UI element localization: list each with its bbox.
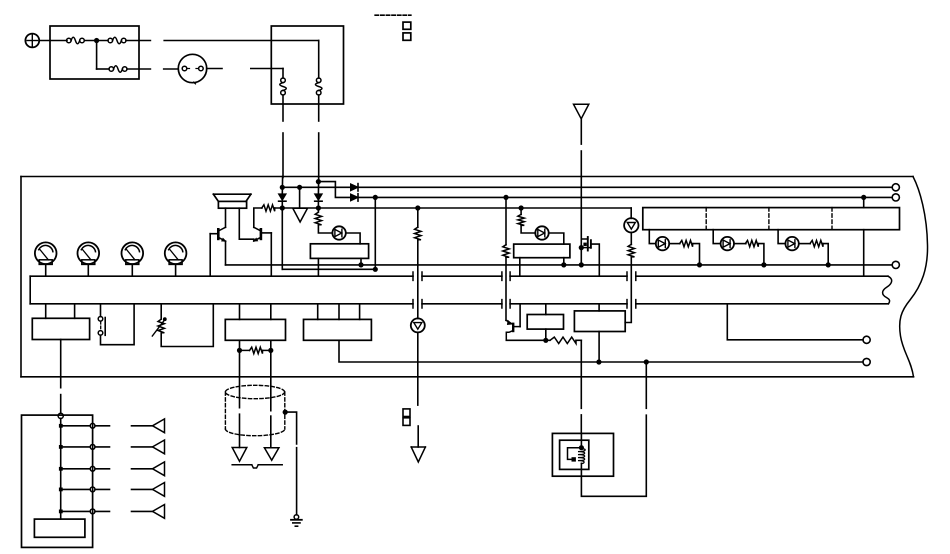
wire mast lead right: [270, 416, 272, 448]
speaker arrow 5: [153, 505, 165, 519]
junction L2 end: [373, 267, 378, 272]
wire branch 4 out: [95, 488, 110, 490]
wire lamp LP2 stem: [87, 264, 89, 276]
wire LED3 to resistor: [734, 243, 746, 245]
terminal J1-1: [90, 423, 95, 428]
wire U6 stem2: [338, 304, 340, 320]
wire branch 1 cont: [132, 425, 153, 427]
wire Q1 base: [210, 233, 218, 235]
connector P1: [178, 54, 206, 82]
wire antenna inside box: [580, 177, 582, 265]
junction J1 tap 5: [59, 510, 63, 514]
junction rail3 D4: [316, 205, 321, 210]
dimmer unit U2: [514, 244, 570, 258]
wire ground lead: [296, 448, 298, 515]
wire D3 to rail3: [281, 201, 283, 208]
wire rail3 corner down: [630, 208, 632, 218]
wire rail3: [254, 208, 262, 227]
wire mast to ground: [285, 412, 296, 444]
wire bus output drop: [727, 304, 863, 340]
wire LED4 feed: [778, 230, 785, 244]
junction U1 L1: [358, 262, 363, 267]
wire R10 drop: [823, 244, 828, 265]
wire branch 2 out: [95, 446, 110, 448]
wire to fuse F4: [251, 68, 283, 70]
wire J1 branch 4: [61, 488, 90, 490]
terminal rail1: [892, 184, 899, 191]
wire LED2 feed: [649, 230, 656, 244]
battery B1: [25, 34, 39, 48]
main unit box bottom edge: [21, 376, 914, 378]
lamp LP1: [35, 242, 57, 264]
indicator LP6: [624, 218, 638, 232]
wire U7 bottom stem: [545, 329, 547, 340]
wire x375 down: [374, 197, 376, 269]
junction rail2 x506: [503, 195, 508, 200]
fuse box FB1: [50, 26, 139, 79]
wire branch 2 cont: [132, 446, 153, 448]
wire x418 below break: [417, 426, 419, 447]
fuse box FB2: [271, 26, 343, 104]
wire rail2 hook: [318, 182, 350, 198]
terminal L1: [892, 261, 899, 268]
wire U1 stem right: [360, 258, 362, 265]
lighting unit U3: [643, 208, 900, 230]
lamp LP3: [122, 242, 144, 264]
wire F5 down: [318, 95, 320, 121]
resistor R12: [240, 349, 250, 351]
bus bar top edge: [30, 275, 413, 277]
wire F5 to main box: [318, 133, 320, 178]
wire rail2 right: [358, 196, 892, 198]
indicator LP5: [411, 318, 425, 332]
terminal J1-2: [90, 445, 95, 450]
dashed divider: [768, 208, 770, 230]
wire branch 3 out: [95, 468, 110, 470]
antenna ANT1: [574, 104, 589, 119]
wire J1 branch 3: [61, 468, 90, 470]
wire gate bend: [581, 238, 588, 240]
resistor R4: [503, 245, 509, 258]
unit U8: [574, 311, 625, 332]
fuse F4: [281, 78, 286, 83]
wire relay out: [581, 415, 646, 496]
wire lamp LP4 stem: [175, 264, 177, 276]
resistor R10: [810, 240, 823, 246]
wire U7 top stem: [545, 304, 547, 315]
lamp LED1: [535, 226, 548, 239]
lamp LED3: [721, 237, 734, 250]
junction Q4 source: [579, 245, 584, 250]
wire relay coil top: [580, 433, 582, 449]
wire VR stem: [160, 304, 162, 319]
wire rail1 right: [358, 186, 892, 188]
wire L2: [282, 268, 375, 270]
wire x418 upper: [417, 208, 419, 227]
relay K1 inner: [560, 440, 589, 469]
junction rail1 start: [280, 185, 285, 190]
wire rail1 left: [282, 186, 350, 188]
junction R12 left: [237, 348, 242, 353]
diode D4: [315, 194, 322, 200]
wire Q2 base drop: [270, 233, 272, 276]
wire lamp LP1 stem: [45, 264, 47, 276]
wire to F3: [97, 68, 109, 70]
main unit box torn right edge: [900, 177, 928, 377]
connector pad square: [403, 22, 411, 29]
lamp LED4: [785, 237, 798, 250]
junction emitter res: [543, 338, 548, 343]
wire x631 mid: [630, 232, 632, 244]
speaker arrow 1: [153, 419, 165, 433]
wire Q2 base: [261, 232, 271, 234]
junction U2 L1: [561, 262, 566, 267]
speaker arrow 4: [153, 483, 165, 497]
diode D1: [351, 184, 358, 191]
wire top feed to fusebox FB2: [164, 40, 319, 42]
junction J1 tap 2: [59, 445, 63, 449]
wire speaker right leg: [238, 208, 240, 239]
wire R9 drop: [758, 244, 764, 265]
wire R5 to relay drop: [576, 339, 581, 341]
resistor R9: [745, 240, 758, 246]
wire Q1 base drop: [209, 234, 211, 277]
wire F3 out: [127, 68, 150, 70]
speaker arrow 2: [153, 440, 165, 454]
lamp LP2: [78, 242, 100, 264]
wire mast lead left: [239, 414, 241, 447]
wire R2 to M1: [318, 226, 332, 234]
junction rail2 x375: [373, 195, 378, 200]
wire feed below break: [60, 395, 62, 414]
junction rail3 x521: [519, 205, 524, 210]
wire F2 out: [126, 40, 150, 42]
wire speaker left leg: [225, 208, 227, 227]
wire Q3 emitter: [506, 339, 546, 341]
speaker SP1: [213, 193, 251, 195]
wire U3 bottom stem: [863, 230, 865, 277]
connector pad square: [403, 409, 410, 417]
wire x521 upper: [520, 208, 522, 214]
dashed separator: [375, 14, 411, 16]
wire common line L1: [226, 264, 892, 266]
wire drop to F4: [282, 69, 284, 79]
bus bar bottom edge: [30, 303, 413, 305]
wire U8 bottom stem: [598, 332, 600, 363]
junction rail2 hook: [316, 179, 321, 184]
wire LED1 right: [549, 233, 564, 244]
wire S1 loop: [101, 304, 135, 345]
wire U4 stem2: [74, 304, 76, 319]
wire x506 to bus: [505, 257, 507, 320]
junction fuse node: [94, 38, 99, 43]
wire Q2 emitter: [253, 239, 255, 241]
junction arrow drop: [297, 185, 302, 190]
coil tap: [572, 457, 576, 461]
diode D2: [351, 194, 358, 201]
unit U7: [527, 315, 563, 330]
relay K1 outer: [552, 433, 613, 476]
amplifier unit U5: [225, 319, 285, 340]
junction J1 tap 3: [59, 467, 63, 471]
wire U4 bottom stem: [60, 340, 62, 388]
bus connector ticks: [626, 272, 628, 280]
junction L1 x763: [761, 262, 766, 267]
wire U4 stem1: [45, 304, 47, 319]
wire x318 resistor top: [317, 208, 319, 212]
wire U6 stem1: [317, 304, 319, 320]
junction box J1: [22, 415, 93, 547]
antenna motor mast (dashed cylinder): [225, 385, 284, 398]
wire U5 down right: [270, 340, 272, 410]
junction coil top: [579, 445, 584, 450]
wire U2 stem right: [563, 258, 565, 265]
wire R8 drop: [693, 244, 700, 265]
wire D4 to rail3: [317, 201, 319, 208]
wire F4 down: [282, 95, 284, 121]
wire relay feed 2: [580, 415, 582, 434]
main unit box top edge: [21, 176, 913, 178]
wire to connector P1: [164, 68, 179, 70]
terminal y340: [863, 336, 870, 343]
arrow mast right: [264, 448, 279, 461]
wire fuse F5 drop: [317, 177, 319, 195]
dashed divider: [831, 208, 833, 230]
transistor Q1: [217, 229, 220, 239]
wire R6 to LED: [521, 225, 535, 233]
diode D3: [279, 194, 286, 200]
connector pad square: [403, 418, 410, 426]
wire U5 down left: [239, 340, 241, 407]
wire J1 branch 5: [61, 510, 90, 512]
wire U8 top stem: [598, 304, 600, 311]
terminal J1-4: [90, 487, 95, 492]
unit U9: [34, 519, 85, 537]
wire battery to fusebox: [39, 40, 67, 42]
terminal rail2: [892, 194, 899, 201]
resistor R8: [680, 240, 693, 246]
wire branch 1 out: [95, 425, 110, 427]
wire LED4 to resistor: [799, 243, 810, 245]
wire x282 down: [281, 208, 283, 269]
wire x646 upper: [645, 362, 647, 408]
wire antenna lead: [580, 119, 582, 144]
resistor R3: [415, 227, 421, 240]
wire Q4 source: [581, 247, 591, 249]
fuse F3: [109, 67, 114, 72]
arrow mast left: [232, 448, 247, 462]
control unit U6: [304, 319, 372, 340]
terminal J1 feed: [58, 413, 63, 418]
junction rail3 x418: [415, 205, 420, 210]
junction J1 tap 1: [59, 424, 63, 428]
transistor Q4 mosfet: [587, 237, 589, 251]
resistor R5: [546, 339, 550, 341]
junction y362 x599: [596, 359, 601, 364]
variable resistor VR1: [158, 319, 164, 333]
wire M1 right: [346, 233, 360, 244]
junction antenna L1: [579, 262, 584, 267]
wire fuse F4 drop: [281, 177, 283, 195]
bus connector ticks: [412, 272, 414, 280]
wire antenna to box: [580, 151, 582, 178]
wire U2 stem left: [519, 258, 521, 277]
fuse F1: [67, 38, 72, 43]
wire x863 drop: [863, 197, 865, 207]
wire relay feed: [580, 340, 582, 408]
junction R12 right: [268, 348, 273, 353]
open arrow down A2: [411, 446, 425, 448]
wire U5 stem2: [270, 304, 272, 320]
wire J1 branch 1: [61, 425, 90, 427]
resistor R1: [262, 205, 275, 211]
junction J1 tap 4: [59, 488, 63, 492]
junction y362 x646: [644, 359, 649, 364]
junction mast ground: [283, 410, 288, 415]
ground G1: [294, 515, 299, 520]
bus bar left edge: [29, 276, 31, 304]
wire relay coil bottom: [580, 463, 582, 476]
motor M1: [332, 226, 345, 239]
wire VR1 loop: [161, 304, 213, 347]
wire coil bypass: [568, 448, 582, 460]
wire LED3 feed: [713, 230, 720, 244]
wire U1 stem left: [317, 258, 319, 276]
control unit U1: [310, 244, 368, 259]
wire drop to fuse F5: [318, 41, 320, 79]
relay coil: [578, 449, 585, 464]
wire U6 output: [339, 340, 863, 362]
wire branch 5 cont: [132, 510, 153, 512]
wire x506 upper: [505, 197, 507, 244]
bus connector ticks: [501, 272, 503, 280]
connector pad square: [403, 33, 411, 40]
mast base line: [232, 464, 252, 466]
wire Q1 emitter drop: [225, 241, 227, 265]
terminal y362: [863, 358, 870, 365]
wire x631 lower: [625, 257, 631, 323]
fuse F2: [108, 38, 113, 43]
wire P1 out: [207, 68, 222, 70]
feed unit U4: [32, 318, 89, 339]
resistor R7: [628, 244, 634, 257]
wire J1 bus: [60, 419, 62, 520]
junction L1 x828: [826, 262, 831, 267]
wire junction down: [96, 41, 98, 70]
lamp LP4: [165, 242, 187, 264]
resistor R6: [518, 214, 524, 225]
terminal J1-5: [90, 509, 95, 514]
terminal J1-3: [90, 466, 95, 471]
switch S1: [100, 304, 102, 317]
wire U6 stem3: [359, 304, 361, 320]
transistor Q3: [512, 324, 514, 331]
speaker arrow 3: [153, 462, 165, 476]
wire LED2 to resistor: [669, 243, 680, 245]
fuse F5: [316, 78, 321, 83]
wire x418 mid: [417, 240, 419, 319]
wire lamp LP3 stem: [131, 264, 133, 276]
wire F1 to F2: [84, 40, 108, 42]
open arrow down: [293, 208, 308, 222]
wire J1 branch 2: [61, 446, 90, 448]
resistor R2: [315, 212, 321, 225]
wire F4 to main box: [282, 133, 284, 178]
wire U5 stem1: [239, 304, 241, 320]
wire branch 5 out: [95, 510, 110, 512]
wire arrow drop: [299, 187, 301, 208]
junction rail3: [280, 205, 285, 210]
dashed divider: [705, 208, 707, 230]
wire x418 lower: [417, 332, 419, 405]
junction L1 x699: [697, 262, 702, 267]
lamp LED2: [656, 237, 669, 250]
wire branch 4 cont: [132, 488, 153, 490]
transistor Q2: [260, 229, 263, 239]
bus bar torn right edge: [883, 276, 892, 304]
main unit box left edge: [20, 177, 22, 377]
wire branch 3 cont: [132, 468, 153, 470]
wire Q4 drain: [591, 244, 599, 276]
junction rail2 x863: [861, 195, 866, 200]
